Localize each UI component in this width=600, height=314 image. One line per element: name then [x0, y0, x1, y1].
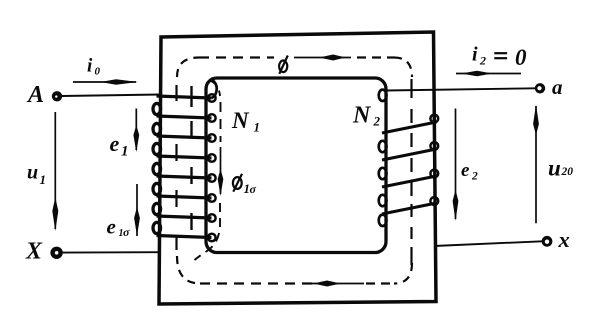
svg-text:x: x [558, 227, 570, 252]
svg-text:i: i [472, 44, 478, 66]
svg-text:1: 1 [121, 144, 129, 160]
svg-text:X: X [25, 239, 43, 265]
svg-text:0: 0 [515, 45, 527, 70]
svg-text:2: 2 [471, 171, 478, 183]
svg-text:N: N [352, 103, 372, 129]
svg-text:2: 2 [479, 53, 486, 67]
svg-text:u: u [27, 162, 38, 184]
svg-text:A: A [26, 82, 44, 108]
svg-text:e: e [110, 131, 120, 156]
svg-text:e: e [461, 160, 470, 181]
svg-text:u: u [548, 155, 561, 180]
svg-text:σ: σ [123, 225, 130, 239]
svg-text:1: 1 [254, 120, 261, 135]
svg-text:a: a [552, 75, 563, 99]
svg-text:e: e [107, 214, 116, 238]
svg-text:σ: σ [250, 182, 257, 196]
svg-text:i: i [87, 55, 93, 76]
svg-text:2: 2 [373, 114, 381, 129]
svg-text:0: 0 [95, 65, 101, 77]
svg-text:1: 1 [40, 172, 47, 187]
svg-text:0: 0 [567, 166, 573, 178]
svg-text:N: N [231, 108, 250, 133]
